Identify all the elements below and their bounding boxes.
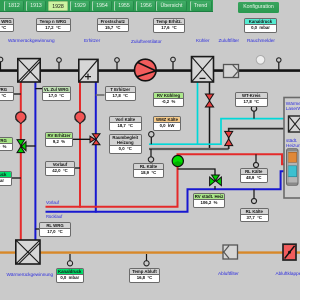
node WMZ sensor <box>150 137 152 144</box>
wire pump to mixing valve <box>178 169 216 176</box>
cyan circuit lines <box>149 119 289 145</box>
grey circuit line <box>149 148 229 150</box>
value box RL Kaelte 37,7 <box>240 208 269 223</box>
value box Temp Abluft <box>129 268 160 283</box>
valve RV WRG (green 3-way) <box>17 140 26 153</box>
button 1928 selected <box>48 1 68 12</box>
supply filter (Zuluftfilter) <box>224 65 239 78</box>
wire tick RL WRG box to blue pipe <box>35 228 40 230</box>
node grey line sensor <box>150 149 152 157</box>
cooler black pipe down <box>209 80 211 150</box>
label Ruecklauf line <box>46 214 62 219</box>
top green menu bar <box>0 0 213 12</box>
value box VL Zul WRG <box>42 86 71 101</box>
value box T Erhitzer <box>105 86 137 101</box>
pump WRG <box>16 112 26 124</box>
wire valve to blue line <box>214 186 216 189</box>
right equipment panel <box>284 98 301 199</box>
wire WRG valve link <box>21 145 36 147</box>
value box WT-Kreis <box>235 92 268 107</box>
label staedt. Heizung <box>286 138 303 149</box>
heat exchanger WRG top <box>18 59 40 82</box>
pump Erhitzer <box>75 112 85 124</box>
label Waermetauscher LaserWT <box>286 101 308 112</box>
value box RV staedt. Heiz <box>193 193 225 208</box>
sensor on duct x116 <box>115 58 120 70</box>
button 1955 <box>114 1 134 12</box>
sensor on duct x278.8 <box>277 58 281 70</box>
node WT-Kreis sensor <box>253 111 255 119</box>
value box RV WRG (cut at left) <box>0 137 13 152</box>
black circuit to panel <box>229 129 289 149</box>
label Waermerueckgewinnung bottom <box>7 272 54 277</box>
sensor on duct x173 <box>171 57 176 70</box>
valve RV Erhitzer (red 3-way) <box>90 134 100 145</box>
button 1929 <box>70 1 90 12</box>
label Abluftklappe <box>276 271 302 276</box>
valve WT circuit (red 2-way) <box>225 131 233 145</box>
label Vorlauf line <box>46 200 59 205</box>
node red sensor stem <box>255 154 257 162</box>
wire tick VL Zul WRG box to blue pipe <box>35 88 42 90</box>
value box Temp n WRG <box>36 18 71 33</box>
value box Kanaldruck (cyan header) <box>244 18 277 33</box>
wire RV Erhitzer to valve <box>73 138 91 140</box>
sensor on exhaust duct x146.5 <box>144 254 149 266</box>
wire tick druck box to red pipe <box>12 177 21 179</box>
label Abluftfilter <box>218 271 239 276</box>
valve RV staedt Heiz (green 3-way) <box>210 175 222 186</box>
fan (Zuluftventilator) <box>135 59 157 81</box>
smoke detector (Rauchmelder) <box>256 56 265 65</box>
label Zuluftfilter <box>219 38 240 43</box>
supply air duct <box>0 69 300 72</box>
blue pipe WRG circuit <box>34 80 36 241</box>
exhaust damper (Abluftklappe, red) <box>283 244 296 260</box>
value box RV Kuehlreg <box>153 92 184 107</box>
value box Vorlauf 42 <box>45 161 75 176</box>
value box RL Kaelte 48,9 <box>240 168 269 183</box>
label Erhitzer <box>84 38 100 43</box>
heater (Erhitzer) box <box>79 59 98 82</box>
valve Kuehlreg (red 2-way on black pipe) <box>205 94 213 107</box>
value box RL Kaelte 18,9 <box>133 163 164 178</box>
label Kuehler <box>196 38 210 43</box>
blue pipe heater circuit <box>95 80 97 213</box>
value box RL WRG <box>39 222 71 237</box>
exhaust filter (Abluftfilter) <box>223 245 238 259</box>
button Uebersicht <box>156 1 187 12</box>
exhaust air duct (orange) <box>0 251 300 253</box>
red pipe WRG circuit <box>20 80 22 241</box>
value box Frostschutz <box>97 18 130 33</box>
wire tick Vorlauf box to red pipe <box>75 167 80 169</box>
button 1913 <box>26 1 46 12</box>
heat exchanger LaserWT (X box in panel) <box>289 116 302 132</box>
red pipe heater circuit <box>79 80 81 208</box>
sensor on duct x58 <box>57 58 62 70</box>
Vorlauf red line <box>46 154 289 207</box>
value box Kanaldruck bottom (green) <box>56 268 85 283</box>
value box Anlagendruck (cut at left) <box>0 171 12 186</box>
value box VL WRG (cut at left edge) <box>0 86 14 101</box>
button Konfiguration <box>238 2 279 13</box>
pump staedt. Heizung (green) <box>172 155 183 166</box>
Ruecklauf blue line <box>46 171 289 212</box>
sensor on exhaust duct x70 <box>67 254 72 266</box>
label Rauchmelder <box>247 38 275 43</box>
button 1956 <box>136 1 156 12</box>
value box Temp v WRG (cut at left edge) <box>0 18 14 33</box>
cooler cyan pipe down <box>197 80 199 145</box>
label Waermerueckgewinnung top <box>8 38 55 43</box>
label Zuluftventilator <box>131 39 162 44</box>
value box Vorl Kaelte <box>109 116 142 131</box>
cooler (Kuehler) box <box>192 57 214 82</box>
wire tick T Erhitzer box to blue pipe <box>96 94 105 96</box>
value box Temp Erhitz. <box>153 18 185 33</box>
staedt. Heizung vessel <box>287 149 299 186</box>
value box WMZ Kaelte <box>153 116 181 131</box>
value box RV Erhitzer <box>45 132 73 147</box>
node blue sensor stem <box>253 189 255 198</box>
wire tick Temp box to red pipe <box>13 93 21 95</box>
button 1954 <box>92 1 112 12</box>
button 1812 <box>4 1 24 12</box>
value box Raumbegleitheizung <box>109 134 142 155</box>
button Trend <box>190 1 212 12</box>
sensor on duct left edge <box>0 57 3 70</box>
heat exchanger WRG bottom <box>16 240 40 264</box>
